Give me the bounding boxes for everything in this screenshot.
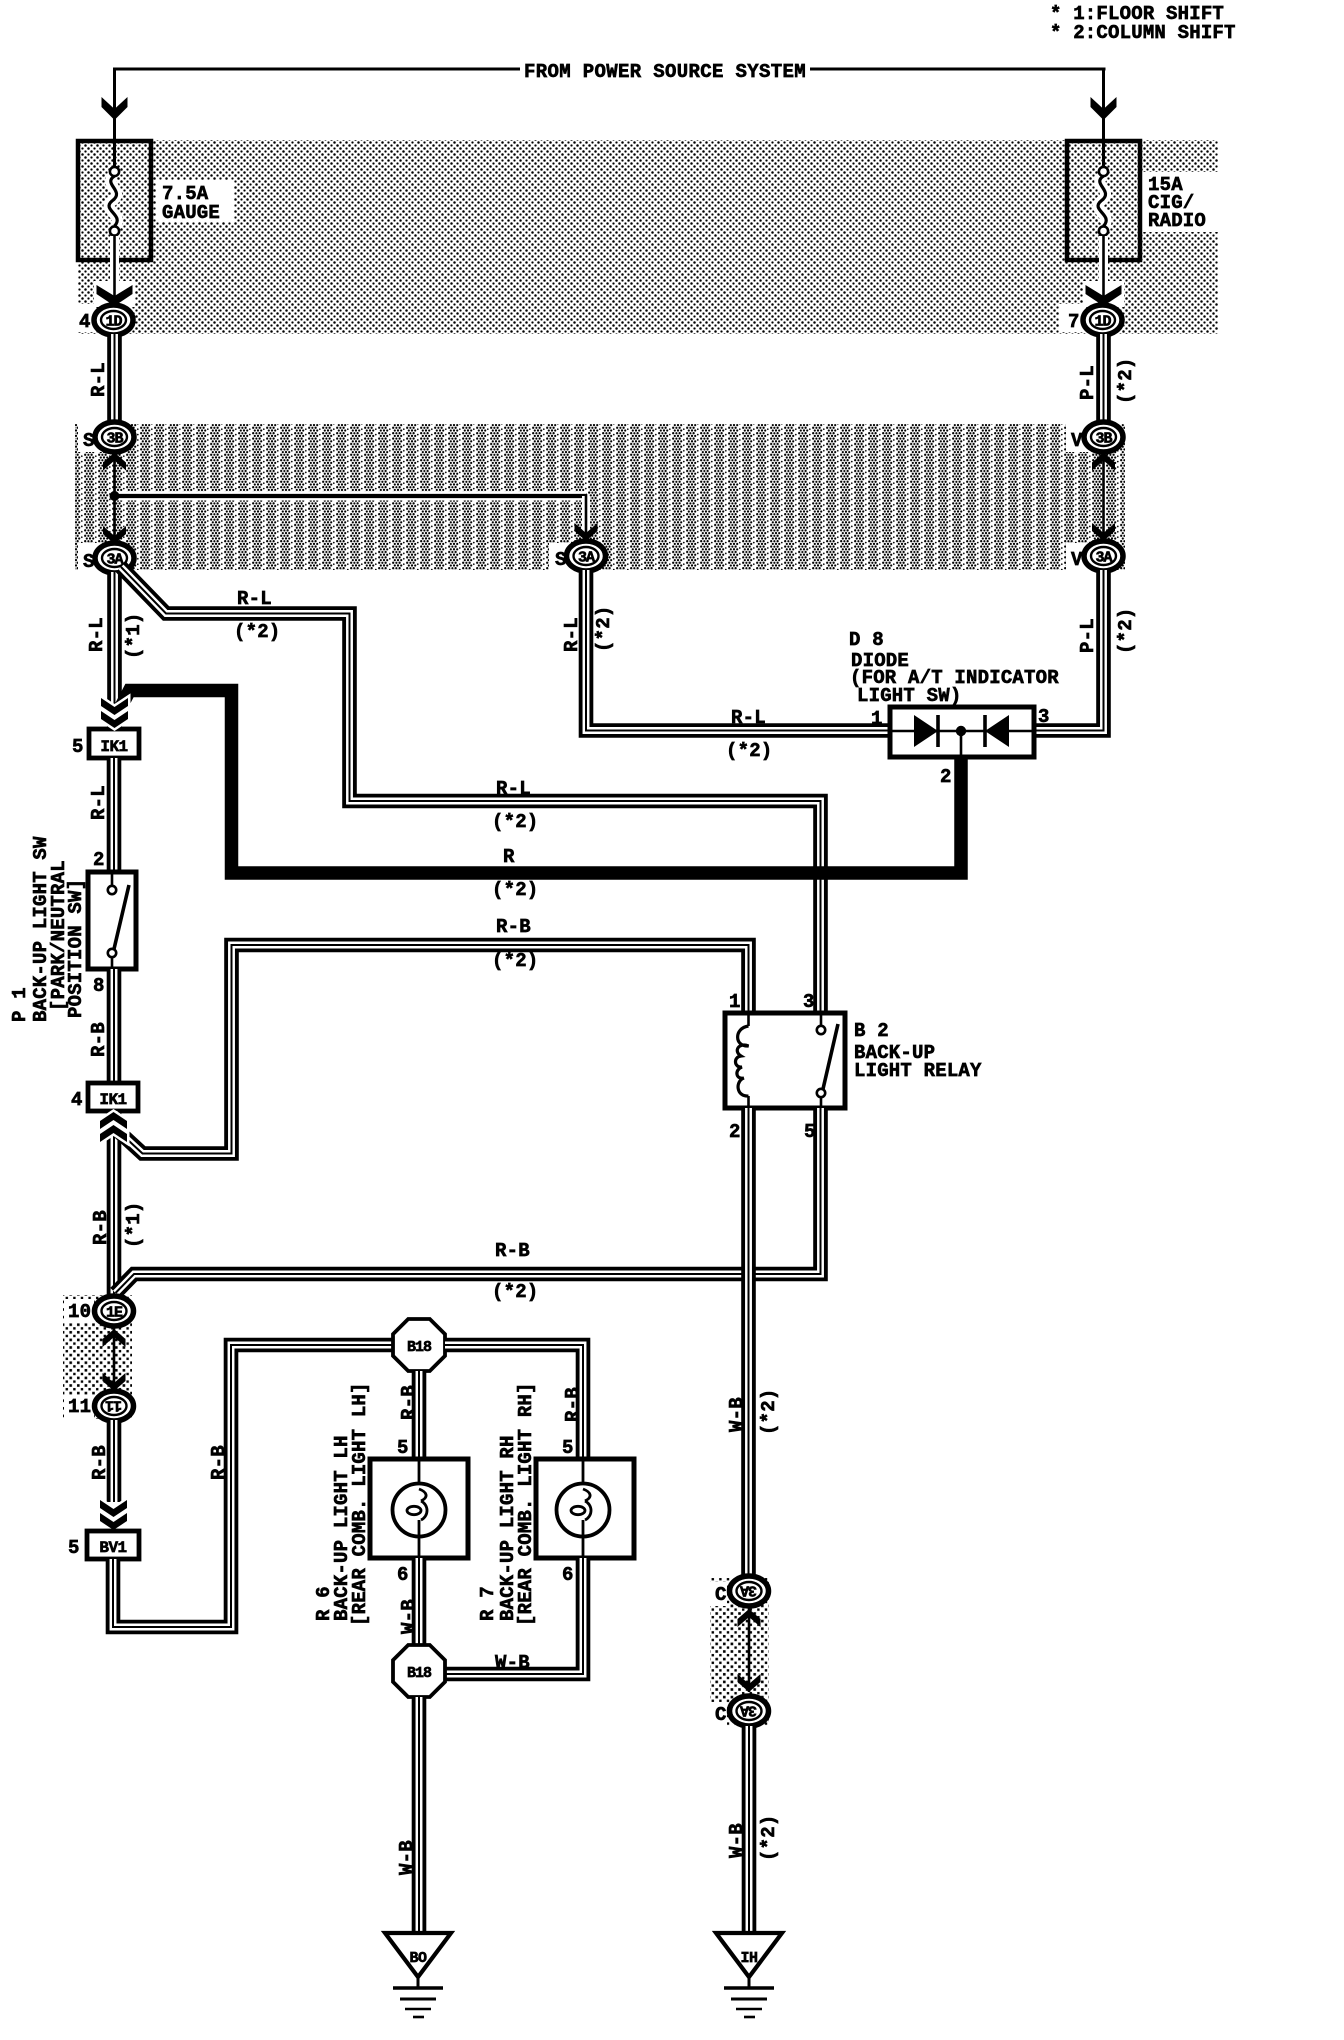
white backing [705, 1702, 727, 1726]
wire junction across to middle 3A [115, 492, 587, 501]
svg-text:LIGHT RELAY: LIGHT RELAY [854, 1060, 982, 1082]
svg-text:RADIO: RADIO [1148, 210, 1206, 232]
arrow down into 3A left [103, 526, 126, 544]
relay coil [735, 1026, 748, 1096]
svg-text:R: R [503, 846, 515, 868]
svg-text:(*2): (*2) [234, 621, 280, 643]
svg-text:7: 7 [1068, 311, 1080, 333]
svg-text:R-B: R-B [208, 1445, 230, 1480]
arrow double into 5 IK1 [101, 698, 128, 728]
wire C 3A link [748, 1607, 751, 1692]
white backing [70, 304, 96, 332]
svg-text:R-B: R-B [496, 916, 531, 938]
wire W-B lamp LH pin 6 to B18 [412, 1558, 427, 1645]
stipple patch connectors 1E/11 [63, 1295, 132, 1419]
svg-text:3A: 3A [578, 550, 595, 567]
svg-text:W-B: W-B [398, 1599, 420, 1634]
white backing [1059, 304, 1085, 332]
arrow into left fuse [102, 97, 128, 120]
svg-text:5: 5 [397, 1437, 409, 1459]
svg-text:3B: 3B [106, 431, 123, 448]
svg-text:R-L: R-L [731, 707, 766, 729]
svg-text:GAUGE: GAUGE [162, 202, 220, 224]
connector C 3A top [730, 1576, 769, 1606]
svg-text:D 8: D 8 [849, 629, 884, 651]
svg-text:(*2): (*2) [492, 950, 538, 972]
connector 1D right [1083, 305, 1122, 335]
svg-text:R-L: R-L [496, 778, 531, 800]
svg-text:11: 11 [68, 1396, 91, 1418]
svg-text:R-B: R-B [90, 1210, 112, 1245]
svg-text:(*2): (*2) [758, 1815, 780, 1861]
white backing [156, 180, 234, 222]
diode element left [914, 715, 938, 747]
connector C 3A bottom [730, 1696, 769, 1726]
svg-text:3: 3 [1038, 706, 1050, 728]
svg-text:2: 2 [729, 1121, 741, 1143]
white backing [78, 543, 104, 571]
svg-text:6: 6 [562, 1564, 574, 1586]
svg-text:[REAR COMB. LIGHT LH]: [REAR COMB. LIGHT LH] [349, 1382, 371, 1626]
back-up light LH lamp R 6 [370, 1459, 468, 1558]
svg-text:R-L: R-L [88, 785, 110, 820]
svg-text:3: 3 [803, 991, 815, 1013]
connector 1D left [94, 305, 133, 335]
ground BO [385, 1933, 451, 2017]
wire fuse to connector 1D left [110, 236, 119, 303]
back-up light switch P 1 [88, 872, 136, 969]
svg-text:IH: IH [740, 1950, 757, 1967]
svg-text:(*2): (*2) [593, 606, 615, 652]
arrow double into BV1 [100, 1500, 127, 1530]
white backing [64, 1299, 94, 1323]
svg-text:[REAR COMB. LIGHT RH]: [REAR COMB. LIGHT RH] [515, 1382, 537, 1626]
svg-text:1E: 1E [106, 1305, 123, 1322]
wire fuse to connector 1D right [1099, 236, 1108, 303]
svg-text:S: S [555, 549, 567, 571]
stipple patch connectors C/3A [710, 1578, 769, 1726]
svg-text:IK1: IK1 [100, 738, 127, 756]
wire W-B lamp RH pin 6 to B18 [446, 1558, 583, 1674]
node junction dot [956, 726, 966, 736]
svg-text:R-L: R-L [88, 362, 110, 397]
arrow up below 1E [103, 1329, 126, 1347]
fuse 15A CIG/RADIO [1067, 141, 1140, 260]
svg-text:V: V [1071, 549, 1083, 571]
white backing [1066, 543, 1092, 571]
wire R-L (*2) middle 3A to diode pin 1 [586, 570, 889, 731]
connector S 3A middle [567, 541, 606, 571]
wire R (*2) thick: 5 IK1 to diode pin 2 [113, 691, 961, 874]
connector 11 [95, 1391, 134, 1421]
connector V 3B right [1084, 422, 1123, 452]
svg-text:B 2: B 2 [854, 1020, 889, 1042]
svg-text:4: 4 [71, 1089, 83, 1111]
svg-text:R-L: R-L [561, 617, 583, 652]
svg-text:R-L: R-L [237, 588, 272, 610]
svg-text:BO: BO [409, 1950, 427, 1967]
svg-text:3A: 3A [740, 1702, 757, 1719]
wire R-B BV1 loop to joint B18 [113, 1345, 395, 1627]
wire P-L (*2) V 3A to diode pin 3 [1035, 570, 1104, 731]
svg-text:6: 6 [397, 1564, 409, 1586]
wire W-B (*2) relay pin 2 to C 3A [741, 1108, 756, 1578]
wire R-B (*2) relay pin 1 to 4 IK1 [116, 945, 749, 1154]
svg-text:R-B: R-B [562, 1387, 584, 1422]
connector S 3A left [95, 543, 134, 573]
svg-text:POSITION SW]: POSITION SW] [65, 879, 87, 1018]
arrow up into 3B right [1092, 453, 1115, 471]
svg-text:1D: 1D [105, 314, 122, 331]
wire R-B (*1) 4 IK1 to connector 1E [107, 1111, 122, 1296]
svg-text:1D: 1D [1094, 314, 1111, 331]
arrow into 1D right [1086, 285, 1122, 306]
svg-text:3B: 3B [1095, 431, 1112, 448]
arrow down into C 3A bottom [738, 1674, 761, 1692]
fuse 7.5A GAUGE [78, 141, 151, 260]
white backing [78, 424, 104, 452]
svg-text:R-L: R-L [86, 617, 108, 652]
wire R-B (*2) relay pin 5 to connector 1E [116, 1108, 821, 1293]
white backing [1083, 281, 1124, 307]
svg-text:B18: B18 [407, 1665, 432, 1682]
wire from power source, top bus [114, 68, 521, 71]
svg-text:B18: B18 [407, 1339, 432, 1356]
connector S 3B left [95, 422, 134, 452]
svg-text:W-B: W-B [726, 1823, 748, 1858]
white backing [64, 1395, 94, 1419]
svg-text:R-B: R-B [88, 1022, 110, 1057]
svg-text:(*2): (*2) [758, 1389, 780, 1435]
svg-text:FROM POWER SOURCE SYSTEM: FROM POWER SOURCE SYSTEM [524, 61, 806, 83]
svg-text:(*2): (*2) [1115, 608, 1137, 654]
svg-text:1: 1 [729, 991, 741, 1013]
svg-text:(*1): (*1) [123, 613, 145, 659]
svg-text:(*2): (*2) [492, 879, 538, 901]
svg-text:3A: 3A [740, 1582, 757, 1599]
svg-text:5: 5 [562, 1437, 574, 1459]
svg-text:W-B: W-B [726, 1397, 748, 1432]
white backing [705, 1582, 727, 1606]
wire R-B B18 to lamp LH pin 5 [412, 1371, 427, 1459]
svg-text:IK1: IK1 [99, 1091, 126, 1109]
arrow into right fuse [1091, 97, 1117, 120]
connector 10 1E [95, 1296, 134, 1326]
diode D 8 assembly [890, 707, 1034, 757]
svg-text:(*2): (*2) [492, 811, 538, 833]
svg-text:P-L: P-L [1077, 365, 1099, 400]
diode element right [985, 715, 1009, 747]
wire R-B connector 11 to 5 BV1 [107, 1420, 122, 1502]
wire 3B to 3A left [113, 450, 116, 545]
ground IH [716, 1933, 782, 2017]
svg-text:S: S [83, 551, 95, 573]
junction dot [110, 491, 120, 501]
svg-text:R-B: R-B [495, 1240, 530, 1262]
wire W-B B18 to ground BO [412, 1697, 427, 1931]
svg-text:3A: 3A [106, 552, 123, 569]
svg-text:V: V [1071, 430, 1083, 452]
svg-text:C: C [715, 1704, 727, 1726]
wire R-L (*1) left 3A down to 5 IK1 [107, 572, 122, 727]
svg-text:2: 2 [93, 849, 105, 871]
relay contact [820, 1013, 823, 1026]
back-up light RH lamp R 7 [536, 1459, 634, 1558]
arrow down into 3A right [1092, 523, 1115, 541]
wire drop to fuse 7.5A [113, 68, 116, 169]
wire R-B switch pin 8 to 4 IK1 [107, 969, 122, 1083]
halftone band top [78, 140, 1218, 334]
svg-text:P 1: P 1 [9, 987, 31, 1022]
svg-text:3A: 3A [1095, 550, 1112, 567]
svg-text:4: 4 [79, 311, 91, 333]
arrow double up into 4 IK1 [100, 1112, 127, 1142]
svg-text:R-B: R-B [89, 1445, 111, 1480]
joint connector B18 top [393, 1319, 445, 1371]
svg-text:(*2): (*2) [726, 740, 772, 762]
white backing [549, 543, 575, 571]
arrow down into 11 [103, 1373, 126, 1391]
back-up light relay B 2 [725, 1013, 845, 1108]
svg-text:(*2): (*2) [1115, 358, 1137, 404]
svg-text:W-B: W-B [396, 1840, 418, 1875]
svg-text:11: 11 [105, 1397, 122, 1414]
connector 4 IK1 [88, 1083, 138, 1111]
svg-text:S: S [83, 430, 95, 452]
white backing [1142, 172, 1220, 232]
wire R-L (*2) branch to back-up light relay pin 3 [121, 567, 821, 1012]
connector 5 BV1 [87, 1531, 139, 1559]
svg-text:1: 1 [871, 708, 883, 730]
svg-text:BV1: BV1 [99, 1539, 126, 1557]
arrow into 1D left [97, 285, 133, 306]
svg-text:* 2:COLUMN SHIFT: * 2:COLUMN SHIFT [1050, 22, 1236, 44]
svg-text:(*1): (*1) [123, 1202, 145, 1248]
svg-text:5: 5 [72, 736, 84, 758]
svg-text:C: C [715, 1584, 727, 1606]
wire R-B B18 to lamp RH pin 5 [445, 1345, 583, 1459]
svg-text:R 7: R 7 [477, 1586, 499, 1621]
arrow down into 3A middle [575, 523, 598, 541]
wire R-L 5 IK1 to switch pin 2 [107, 758, 122, 872]
svg-text:5: 5 [68, 1537, 80, 1559]
white backing [1066, 424, 1092, 452]
joint connector B18 bottom [393, 1645, 445, 1697]
wire R-L left 1D to 3B [107, 334, 122, 423]
connector 5 IK1 [89, 729, 139, 758]
svg-text:10: 10 [68, 1301, 91, 1323]
wire 1E to 11 [113, 1326, 116, 1392]
connector V 3A right [1084, 541, 1123, 571]
arrow up into 3B left [103, 453, 126, 471]
svg-text:(*2): (*2) [492, 1281, 538, 1303]
svg-text:W-B: W-B [495, 1652, 530, 1674]
svg-text:LIGHT SW): LIGHT SW) [857, 685, 961, 707]
wire drop to fuse 15A [1102, 68, 1105, 169]
white backing [94, 281, 135, 307]
svg-text:R-B: R-B [398, 1385, 420, 1420]
svg-text:P-L: P-L [1077, 618, 1099, 653]
arrow up below C 3A top [738, 1609, 761, 1627]
wire 3B to 3A right [1102, 451, 1105, 542]
wire P-L right 1D to 3B [1096, 334, 1111, 423]
svg-text:2: 2 [940, 766, 952, 788]
svg-text:8: 8 [93, 975, 105, 997]
halftone band middle (striped) [75, 424, 1125, 570]
wire W-B (*2) C 3A to ground IH [742, 1726, 757, 1931]
